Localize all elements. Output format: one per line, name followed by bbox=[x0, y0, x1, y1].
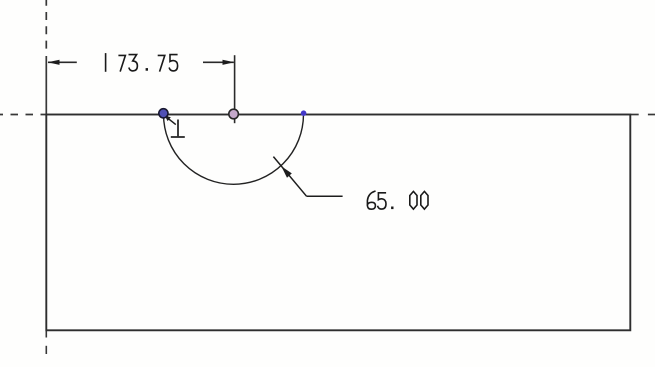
arc (semicircle notch R65) bbox=[164, 114, 304, 184]
dimension 173.75 dimension line left segment bbox=[48, 61, 77, 63]
vertical centerline (dashed, above rectangle) bbox=[45, 0, 47, 52]
dimension 173.75 right extension line bbox=[234, 55, 236, 123]
rectangle outline bbox=[46, 115, 630, 331]
vertical centerline solid segment / left extension line bbox=[45, 56, 47, 115]
arc center point marker bbox=[229, 109, 239, 119]
leader diagonal segment for 65.00 bbox=[273, 157, 306, 197]
dimension text 173.75 bbox=[106, 54, 178, 71]
vertex point marker (arc left endpoint) bbox=[159, 109, 168, 118]
dimension 173.75 dimension line right segment bbox=[203, 61, 234, 63]
leader arrowhead for 65.00 pointing at arc bbox=[281, 166, 292, 178]
perpendicular constraint leader bbox=[166, 117, 176, 125]
dimension 173.75 left arrowhead bbox=[48, 60, 60, 65]
dimension 173.75 right arrowhead bbox=[223, 60, 235, 65]
perpendicular constraint symbol bbox=[171, 120, 185, 138]
horizontal centerline (dashed, left of rectangle) bbox=[0, 114, 46, 116]
vertical centerline (dashed, below rectangle) bbox=[45, 331, 47, 354]
horizontal centerline (dashed, right of rectangle) bbox=[631, 114, 655, 116]
perpendicular constraint leader arrowhead bbox=[165, 115, 171, 121]
leader horizontal segment for 65.00 bbox=[307, 195, 343, 197]
arc right endpoint marker (blue dot) bbox=[301, 110, 307, 116]
dimension text 65.00 bbox=[367, 191, 428, 209]
